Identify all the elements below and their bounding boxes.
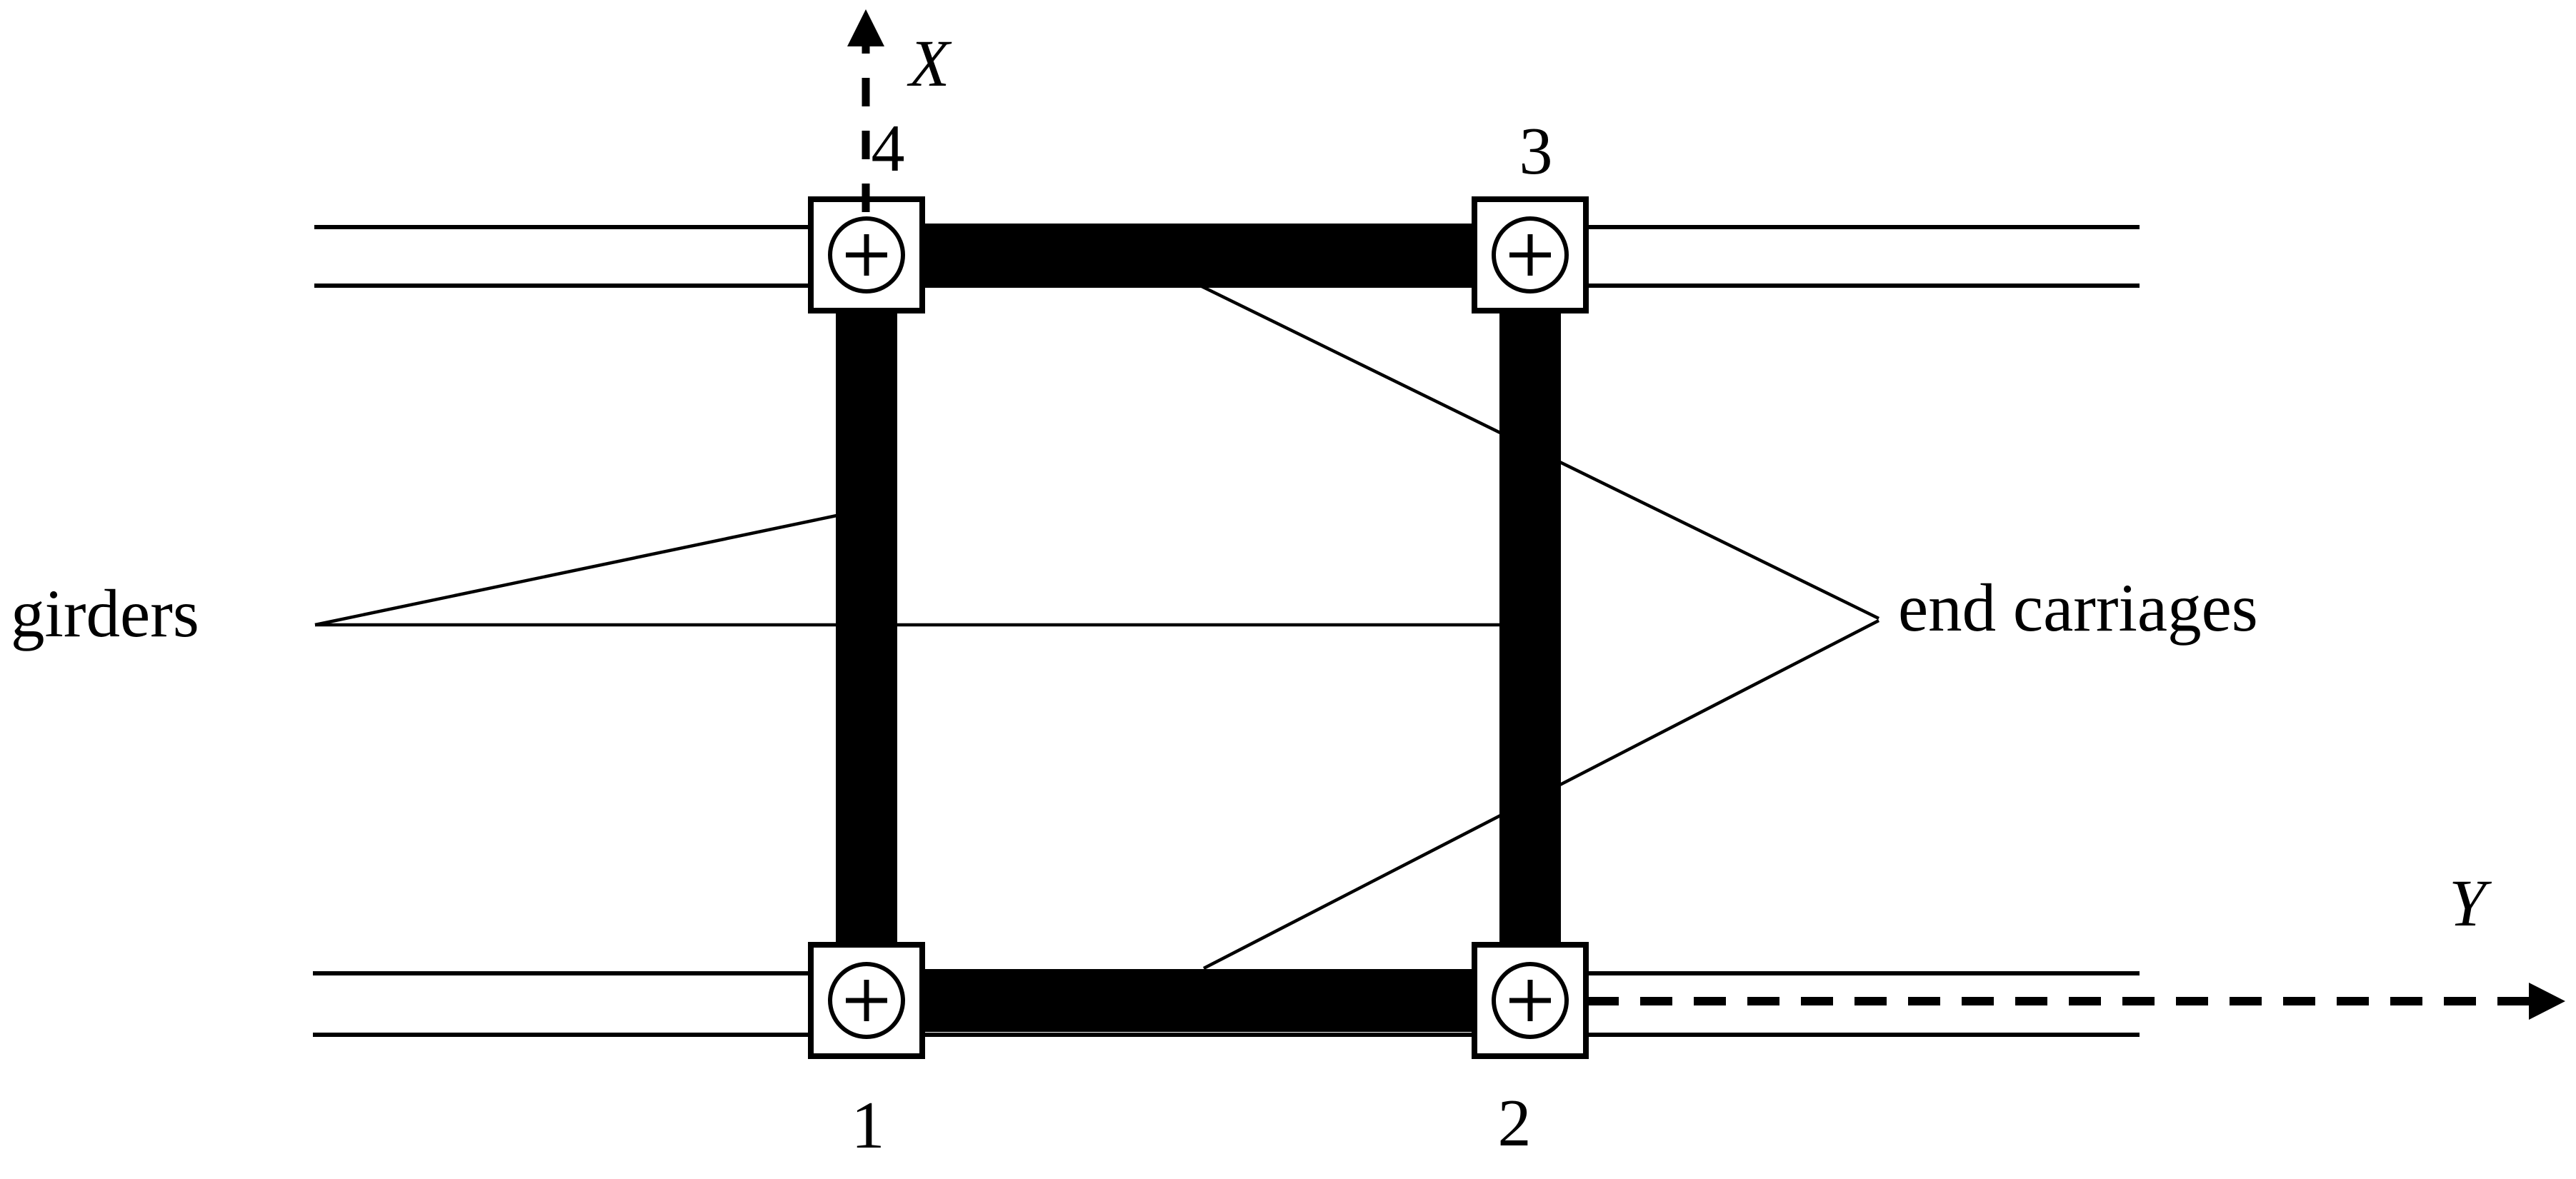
node 3 crosshair bbox=[1509, 234, 1551, 276]
svg-text:X: X bbox=[907, 27, 952, 101]
bottom runway rail lower line bbox=[313, 1033, 2140, 1037]
node 1 square bbox=[811, 945, 922, 1056]
node 2 wheel circle bbox=[1494, 964, 1567, 1037]
node 4 wheel circle bbox=[830, 219, 903, 291]
svg-text:Y: Y bbox=[2449, 867, 2492, 940]
node 3 wheel circle bbox=[1494, 219, 1567, 291]
X axis arrowhead bbox=[847, 9, 884, 46]
node 2 square bbox=[1474, 945, 1586, 1056]
node 4 square bbox=[811, 199, 922, 311]
girder bottom (end carriage member between nodes 1 and 2) bbox=[867, 969, 1530, 1032]
svg-text:girders: girders bbox=[11, 576, 199, 651]
leader line from end carriages label to bottom member bbox=[1204, 621, 1879, 968]
node 1 crosshair bbox=[846, 980, 887, 1021]
leader line from end carriages label to top member bbox=[1197, 284, 1879, 618]
top runway rail upper line bbox=[314, 225, 2140, 229]
node 4 crosshair bbox=[846, 234, 887, 276]
svg-text:2: 2 bbox=[1498, 1086, 1532, 1160]
node 3 square bbox=[1474, 199, 1586, 311]
Y axis arrowhead bbox=[2529, 983, 2565, 1020]
X axis dashed line bbox=[862, 46, 870, 217]
girder top (end carriage member between nodes 4 and 3) bbox=[867, 224, 1530, 286]
right girder (vertical member between nodes 3 and 2) bbox=[1499, 255, 1561, 1000]
svg-text:1: 1 bbox=[852, 1088, 885, 1163]
leader line from girders label to left girder bbox=[315, 516, 837, 625]
svg-text:3: 3 bbox=[1519, 114, 1553, 189]
bottom runway rail upper line bbox=[313, 971, 2140, 975]
left girder (vertical member between nodes 4 and 1) bbox=[836, 255, 897, 1000]
svg-text:4: 4 bbox=[872, 111, 905, 186]
Y axis dashed line bbox=[1587, 997, 2529, 1005]
node 2 crosshair bbox=[1509, 980, 1551, 1021]
top runway rail lower line bbox=[314, 284, 2140, 288]
svg-text:end carriages: end carriages bbox=[1898, 570, 2258, 646]
node 1 wheel circle bbox=[830, 964, 903, 1037]
leader line from girders label to right girder bbox=[315, 623, 1504, 627]
